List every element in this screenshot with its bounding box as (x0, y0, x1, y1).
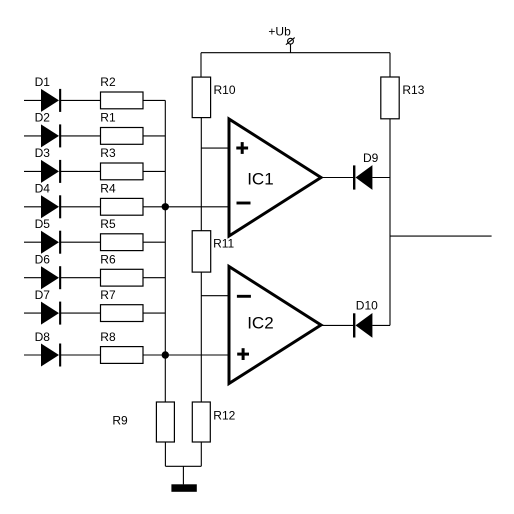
svg-text:D5: D5 (35, 217, 51, 231)
svg-text:IC1: IC1 (247, 170, 273, 189)
svg-text:D4: D4 (35, 182, 51, 196)
svg-text:D7: D7 (35, 288, 51, 302)
svg-text:R13: R13 (402, 83, 424, 97)
svg-text:R5: R5 (100, 217, 116, 231)
svg-text:R6: R6 (100, 252, 116, 266)
svg-text:R7: R7 (100, 288, 116, 302)
svg-text:R1: R1 (100, 111, 116, 125)
svg-text:R12: R12 (213, 409, 235, 423)
svg-text:R8: R8 (100, 330, 116, 344)
svg-text:D9: D9 (363, 151, 379, 165)
svg-text:R10: R10 (214, 83, 236, 97)
svg-text:D1: D1 (35, 75, 51, 89)
svg-text:D6: D6 (35, 252, 51, 266)
svg-text:R9: R9 (112, 414, 128, 428)
svg-text:IC2: IC2 (247, 314, 273, 333)
svg-text:D3: D3 (35, 146, 51, 160)
svg-text:R2: R2 (100, 75, 116, 89)
svg-text:D8: D8 (35, 330, 51, 344)
svg-text:+Ub: +Ub (268, 25, 291, 39)
svg-text:R3: R3 (100, 146, 116, 160)
svg-text:R4: R4 (100, 182, 116, 196)
svg-text:D10: D10 (356, 298, 378, 312)
svg-text:D2: D2 (35, 111, 51, 125)
svg-text:R11: R11 (213, 236, 234, 250)
